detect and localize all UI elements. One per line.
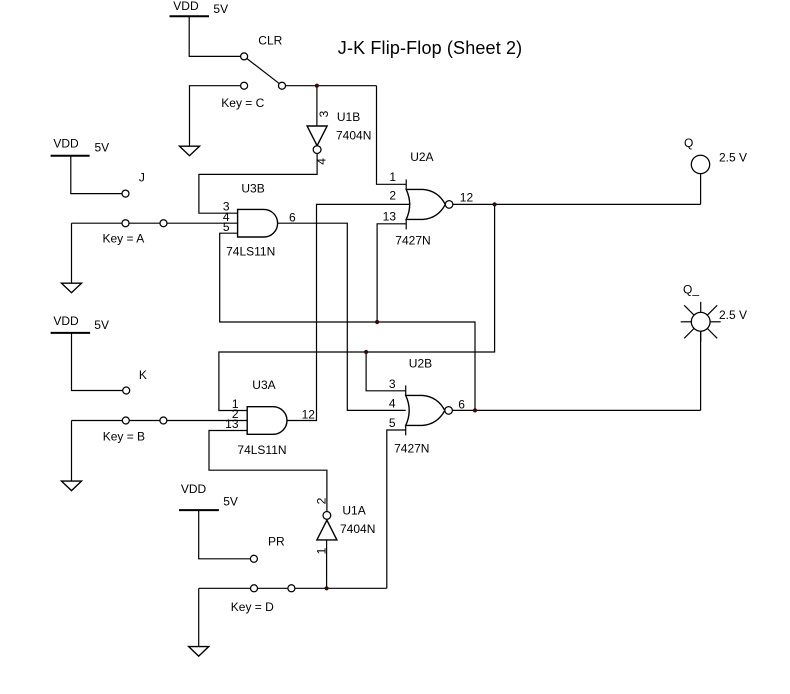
svg-text:Q_: Q_ bbox=[683, 282, 699, 296]
svg-text:3: 3 bbox=[317, 110, 331, 117]
svg-text:VDD: VDD bbox=[53, 136, 79, 150]
svg-text:VDD: VDD bbox=[173, 0, 199, 13]
junction node Q_ feedback to U2A pin13 bbox=[375, 320, 379, 324]
switch S3 terminal circles bbox=[241, 53, 248, 60]
wire U2A output to Q probe and junction bbox=[453, 203, 701, 205]
svg-text:2.5 V: 2.5 V bbox=[719, 151, 747, 165]
svg-text:3: 3 bbox=[389, 377, 396, 391]
U2A input stubs bbox=[405, 179, 407, 189]
junction node Q_ output bbox=[473, 408, 477, 412]
svg-text:J-K Flip-Flop (Sheet 2): J-K Flip-Flop (Sheet 2) bbox=[338, 38, 523, 58]
wire Q_ feedback up and across to U3B pin 5 bbox=[220, 233, 475, 410]
svg-text:K: K bbox=[139, 368, 147, 382]
wire Key=D row: ground side to common and on to U2B pin5 riser bbox=[199, 587, 387, 589]
svg-text:12: 12 bbox=[460, 190, 474, 204]
AND gate U3B 74LS11N bbox=[223, 181, 296, 258]
NOR gate U2B 7427N bbox=[389, 356, 465, 455]
svg-text:5: 5 bbox=[223, 220, 230, 234]
svg-text:VDD: VDD bbox=[181, 482, 207, 496]
wire VDD4 to PR throw bbox=[199, 510, 254, 559]
wire lamp riser bbox=[700, 331, 702, 410]
svg-text:5V: 5V bbox=[223, 495, 238, 509]
svg-text:7404N: 7404N bbox=[336, 129, 371, 143]
svg-text:12: 12 bbox=[302, 407, 316, 421]
svg-text:Key = C: Key = C bbox=[221, 96, 264, 110]
svg-text:5V: 5V bbox=[95, 140, 110, 154]
AND gate U3A 74LS11N bbox=[225, 378, 315, 457]
svg-text:2.5 V: 2.5 V bbox=[719, 308, 747, 322]
svg-text:Key = D: Key = D bbox=[231, 600, 274, 614]
svg-text:7427N: 7427N bbox=[394, 442, 429, 456]
switch S2 circles (Key=B) bbox=[123, 387, 130, 394]
svg-text:Key = A: Key = A bbox=[103, 232, 145, 246]
probe Q bbox=[691, 155, 709, 173]
svg-text:U1A: U1A bbox=[342, 504, 365, 518]
wire Q feedback branch to U2B pin 3 bbox=[366, 352, 406, 391]
svg-text:U2A: U2A bbox=[410, 150, 433, 164]
wire CLR corner down to U2A pin 1 bbox=[377, 86, 407, 185]
svg-text:7427N: 7427N bbox=[395, 234, 430, 248]
svg-text:13: 13 bbox=[225, 417, 239, 431]
VDD rail VDD4 (PR source) bbox=[179, 482, 238, 510]
svg-text:5V: 5V bbox=[213, 2, 228, 16]
switch S4 circles (Key=D) bbox=[250, 555, 257, 562]
svg-text:5V: 5V bbox=[94, 318, 109, 332]
svg-text:74LS11N: 74LS11N bbox=[237, 443, 286, 457]
wire U3B output 6 to U2B pin 4 bbox=[277, 223, 405, 410]
svg-text:7404N: 7404N bbox=[340, 522, 375, 536]
VDD rail VDD2 (J source) bbox=[51, 136, 110, 156]
wire S4 ground drop bbox=[198, 588, 200, 646]
junction node Q output bbox=[493, 202, 497, 206]
svg-text:J: J bbox=[139, 171, 145, 185]
wire Q probe riser bbox=[700, 174, 702, 205]
switch S3 blade (Key=C, up position) bbox=[244, 56, 282, 85]
wire Q feedback: junction down, across to U3A pin1 bbox=[219, 204, 495, 410]
svg-text:5: 5 bbox=[389, 416, 396, 430]
svg-text:4: 4 bbox=[389, 396, 396, 410]
svg-text:VDD: VDD bbox=[53, 314, 79, 328]
svg-text:1: 1 bbox=[315, 547, 329, 554]
inverter U1B 7404N (pointing down) bbox=[307, 110, 371, 165]
svg-text:6: 6 bbox=[458, 397, 465, 411]
junction node CLR/U1B bbox=[315, 84, 319, 88]
svg-text:U1B: U1B bbox=[337, 110, 360, 124]
U2B input stubs bbox=[405, 385, 407, 395]
svg-text:CLR: CLR bbox=[258, 34, 282, 48]
ground (PR switch) bbox=[189, 647, 209, 657]
wire switch S3 lower throw to ground bbox=[190, 86, 245, 147]
inverter U1A 7404N (pointing up) bbox=[315, 497, 376, 554]
svg-text:Q: Q bbox=[684, 136, 693, 150]
wire U2B output to lamp Q_ bbox=[452, 409, 700, 411]
svg-text:U2B: U2B bbox=[409, 356, 432, 370]
lamp Q_ (probe with rays) bbox=[681, 302, 721, 342]
wire ground row to S2 common to U3A pin 2 bbox=[72, 420, 248, 422]
wire VDD3 to K throw bbox=[72, 333, 127, 391]
wire node CLR down to U1B input bbox=[316, 86, 318, 126]
svg-text:1: 1 bbox=[389, 170, 396, 184]
VDD rail VDD1 (CLR source) bbox=[170, 0, 229, 16]
wire U1B output to U3B pin 3 bbox=[199, 154, 317, 214]
wire VDD2 to J throw bbox=[71, 156, 126, 194]
svg-text:74LS11N: 74LS11N bbox=[226, 245, 275, 259]
ground (J switch) bbox=[62, 283, 82, 293]
wire switch S3 common to U1B node and U2A pin1 corner bbox=[282, 85, 377, 87]
switch S1 circles (Key=A) bbox=[122, 190, 129, 197]
svg-text:2: 2 bbox=[389, 188, 396, 202]
svg-text:Key = B: Key = B bbox=[103, 429, 145, 443]
svg-text:U3B: U3B bbox=[241, 181, 264, 195]
svg-text:PR: PR bbox=[268, 535, 285, 549]
wire PR node up to U2B pin 5 bbox=[387, 430, 406, 588]
wire ground to switch S1 lower throw and common to U3B pin 4 bbox=[72, 222, 238, 224]
wire S2 ground drop bbox=[71, 421, 73, 482]
junction node PR/U1A bbox=[325, 586, 329, 590]
NOR gate U2A 7427N bbox=[383, 150, 474, 248]
wire U3A output 12 up to U2A pin 2 bbox=[287, 204, 410, 420]
ground (K switch) bbox=[62, 481, 82, 491]
wire VDD1 to switch S3 top throw bbox=[189, 16, 244, 56]
VDD rail VDD3 (K source) bbox=[51, 314, 109, 333]
ground (CLR switch) bbox=[180, 146, 200, 156]
svg-text:U3A: U3A bbox=[252, 378, 275, 392]
svg-text:13: 13 bbox=[383, 210, 397, 224]
junction node Q feedback to U2B pin3 bbox=[364, 350, 368, 354]
wire U1A output to U3A pin 13 bbox=[209, 431, 327, 512]
wire S1 ground drop bbox=[71, 223, 73, 283]
wire Q_ feedback branch to U2A pin 13 bbox=[377, 224, 406, 322]
wire PR node to U1A input bbox=[326, 540, 328, 588]
